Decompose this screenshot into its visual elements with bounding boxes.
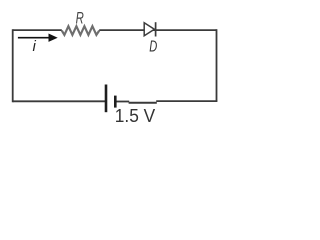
svg-text:D: D [149, 39, 157, 56]
svg-text:1.5 V: 1.5 V [115, 106, 155, 126]
svg-text:R: R [76, 8, 84, 27]
